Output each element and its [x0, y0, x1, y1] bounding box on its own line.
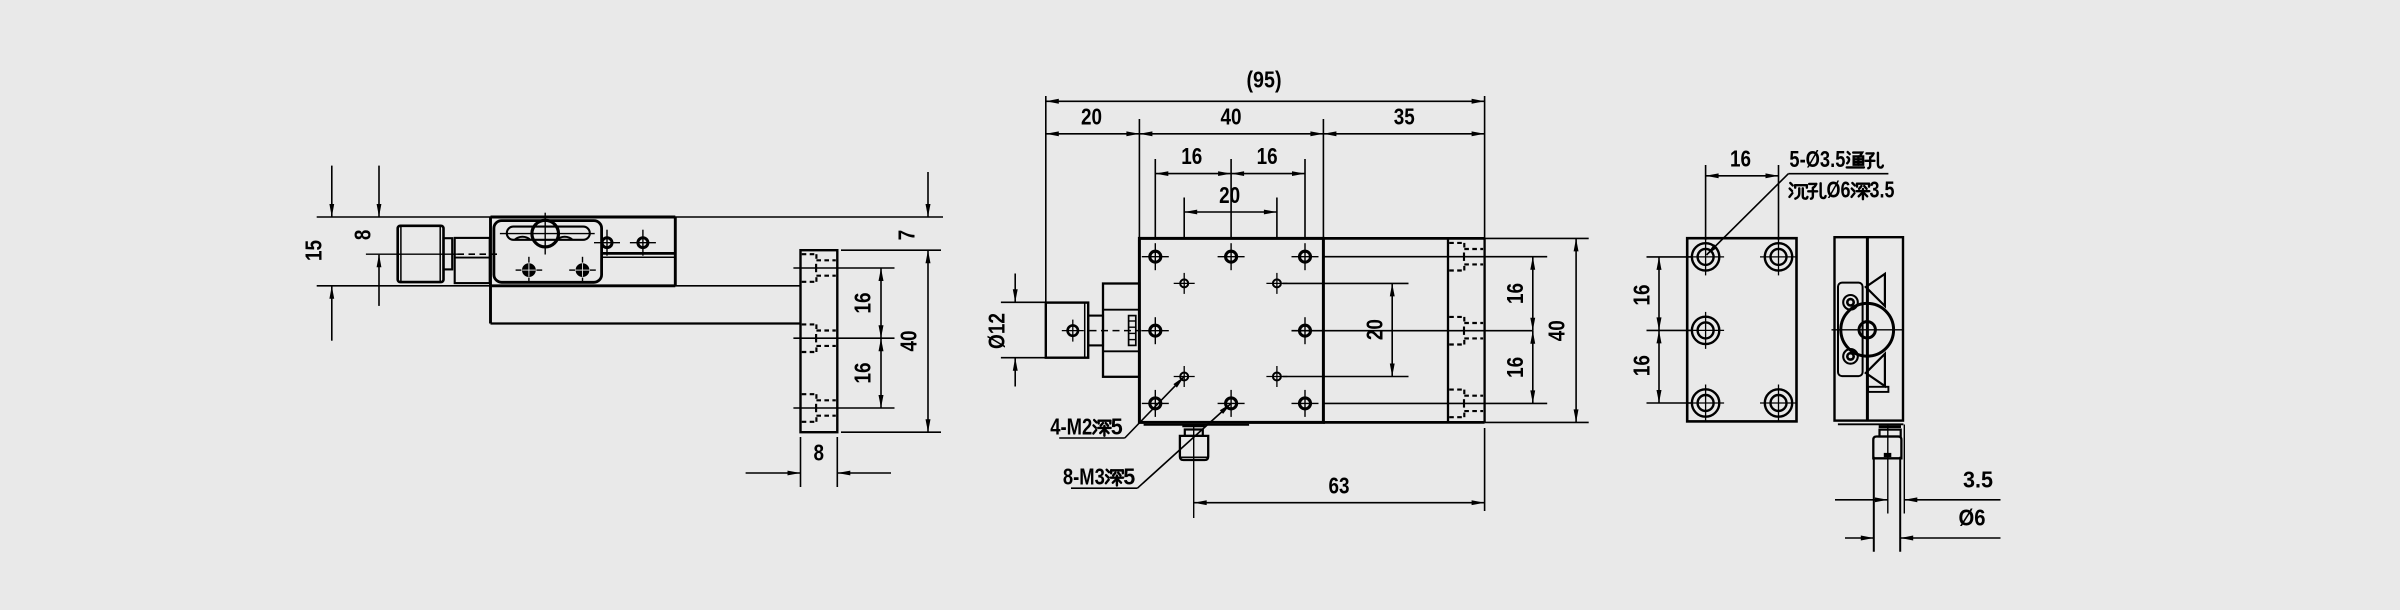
- svg-text:5: 5: [1111, 414, 1123, 440]
- svg-text:16: 16: [1628, 355, 1654, 376]
- svg-text:15: 15: [300, 240, 326, 261]
- svg-text:3.5: 3.5: [1963, 466, 1993, 492]
- svg-text:16: 16: [1628, 285, 1654, 306]
- svg-text:5: 5: [1123, 463, 1135, 489]
- svg-text:20: 20: [1219, 182, 1240, 208]
- svg-text:Ø12: Ø12: [983, 313, 1009, 349]
- svg-text:8-M3: 8-M3: [1063, 463, 1105, 489]
- svg-text:8: 8: [814, 439, 825, 465]
- svg-text:Ø6: Ø6: [1827, 176, 1851, 202]
- svg-text:5-Ø3.5: 5-Ø3.5: [1789, 146, 1845, 172]
- svg-text:40: 40: [1221, 103, 1242, 129]
- svg-text:Ø6: Ø6: [1959, 504, 1986, 530]
- svg-text:16: 16: [1257, 143, 1278, 169]
- svg-text:16: 16: [849, 363, 875, 384]
- svg-text:8: 8: [349, 230, 375, 241]
- svg-text:3.5: 3.5: [1870, 176, 1895, 202]
- svg-text:16: 16: [1181, 143, 1202, 169]
- svg-text:16: 16: [1730, 146, 1751, 172]
- svg-text:20: 20: [1361, 319, 1387, 340]
- svg-text:35: 35: [1394, 103, 1415, 129]
- svg-text:16: 16: [1502, 283, 1528, 304]
- svg-text:(95): (95): [1247, 66, 1282, 92]
- svg-text:16: 16: [1502, 357, 1528, 378]
- svg-text:40: 40: [895, 331, 921, 352]
- svg-text:4-M2: 4-M2: [1050, 414, 1092, 440]
- svg-text:63: 63: [1329, 472, 1350, 498]
- svg-text:40: 40: [1544, 320, 1570, 341]
- svg-text:16: 16: [849, 293, 875, 314]
- svg-text:20: 20: [1081, 103, 1102, 129]
- svg-text:7: 7: [893, 230, 919, 241]
